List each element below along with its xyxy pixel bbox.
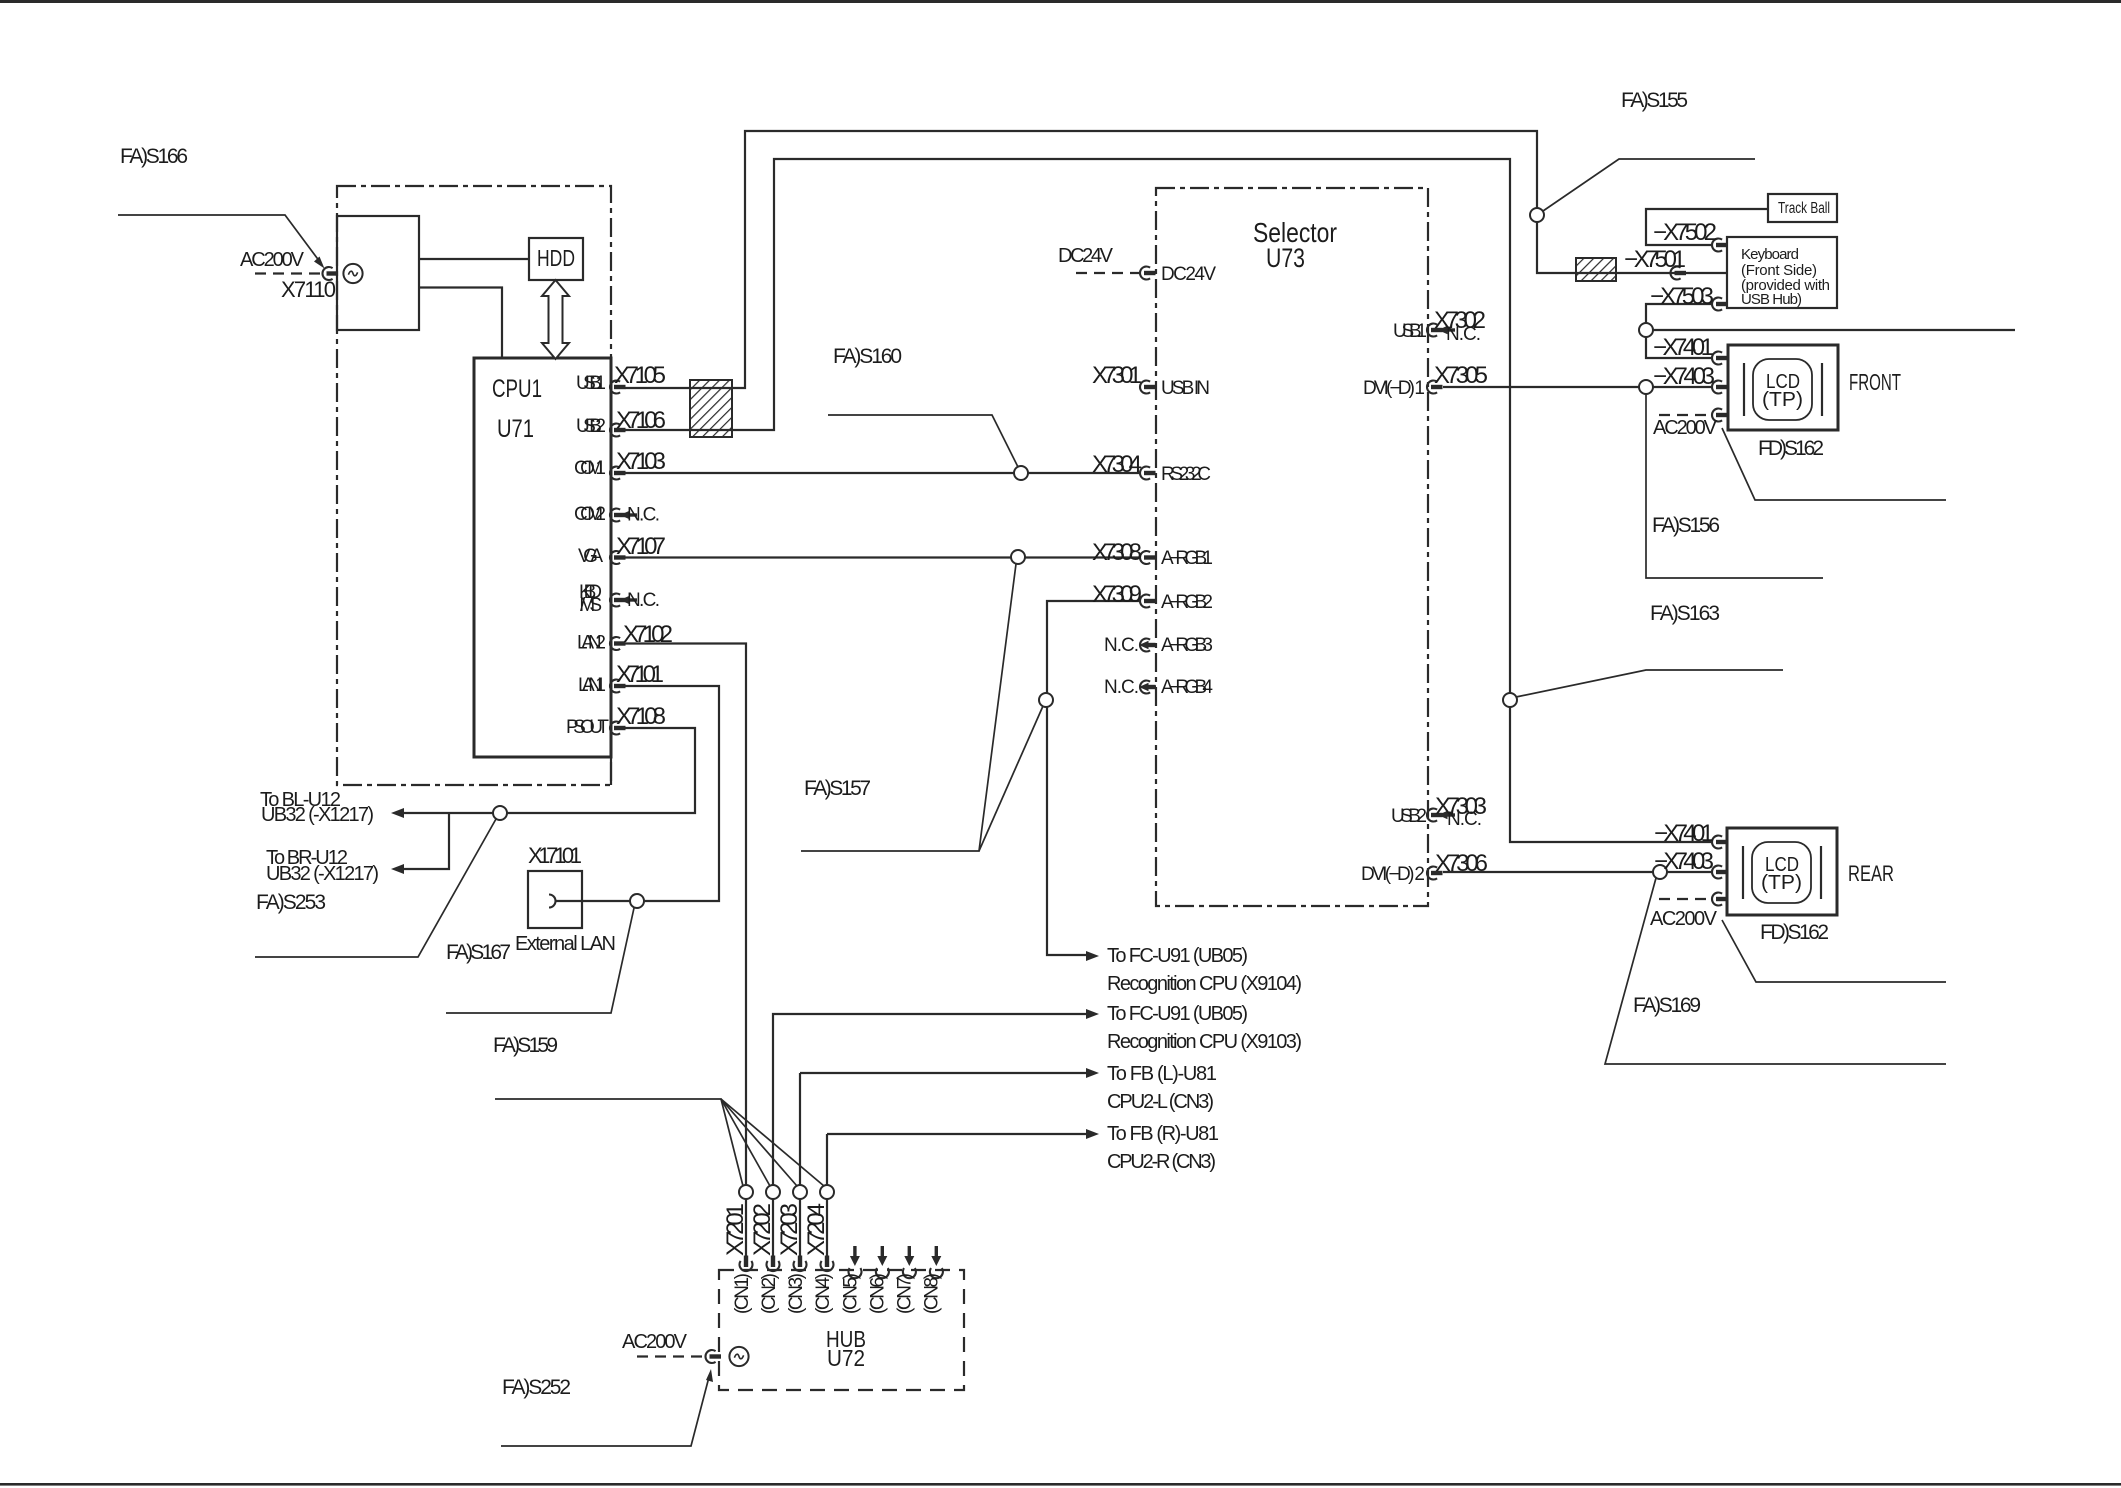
svg-text:−X7401: −X7401 (1653, 334, 1714, 361)
svg-text:A−RGB4: A−RGB4 (1161, 677, 1213, 698)
svg-text:FD)S162: FD)S162 (1758, 437, 1824, 460)
svg-text:X7203: X7203 (776, 1203, 803, 1256)
svg-text:To FC-U91 (UB05): To FC-U91 (UB05) (1107, 945, 1248, 967)
svg-text:X7308: X7308 (1092, 539, 1142, 566)
svg-text:UB32 (-X1217): UB32 (-X1217) (266, 863, 379, 885)
svg-text:DC24V: DC24V (1161, 264, 1216, 285)
svg-text:External LAN: External LAN (515, 933, 616, 955)
svg-text:RS232C: RS232C (1161, 464, 1211, 485)
svg-text:VGA: VGA (578, 546, 603, 567)
svg-text:AC200V: AC200V (1653, 417, 1718, 439)
svg-text:To FC-U91 (UB05): To FC-U91 (UB05) (1107, 1003, 1248, 1025)
svg-text:−X7403: −X7403 (1654, 848, 1714, 875)
svg-text:LAN1: LAN1 (578, 675, 606, 696)
svg-text:Recognition CPU (X9103): Recognition CPU (X9103) (1107, 1031, 1302, 1053)
svg-text:A−RGB2: A−RGB2 (1161, 592, 1213, 613)
svg-text:AC200V: AC200V (240, 249, 305, 271)
svg-text:−X7401: −X7401 (1654, 820, 1714, 847)
svg-text:X7301: X7301 (1092, 362, 1142, 389)
svg-text:−X7501: −X7501 (1624, 246, 1686, 273)
svg-text:(TP): (TP) (1762, 389, 1803, 411)
svg-text:(CN3): (CN3) (786, 1273, 807, 1314)
svg-text:PS OUT: PS OUT (566, 717, 609, 738)
svg-text:FA)S166: FA)S166 (120, 145, 188, 168)
svg-text:N.C.: N.C. (1104, 677, 1139, 698)
svg-text:X17101: X17101 (528, 843, 582, 868)
svg-text:/MS: /MS (579, 595, 602, 616)
svg-text:X7201: X7201 (722, 1203, 749, 1256)
svg-text:FD)S162: FD)S162 (1760, 921, 1829, 944)
svg-text:U71: U71 (497, 415, 534, 443)
svg-text:DVI(−D) 1: DVI(−D) 1 (1363, 378, 1425, 399)
svg-text:FA)S252: FA)S252 (502, 1376, 571, 1399)
svg-text:FA)S157: FA)S157 (804, 777, 871, 800)
svg-text:(CN7): (CN7) (895, 1273, 916, 1314)
svg-text:DVI(−D) 2: DVI(−D) 2 (1361, 864, 1425, 885)
svg-text:N.C.: N.C. (1104, 635, 1139, 656)
svg-text:Keyboard: Keyboard (1741, 246, 1799, 263)
svg-text:X7305: X7305 (1434, 362, 1488, 389)
svg-text:−X7502: −X7502 (1653, 219, 1717, 246)
svg-text:FA)S155: FA)S155 (1621, 89, 1688, 112)
svg-text:X7103: X7103 (616, 448, 666, 475)
svg-text:N.C.: N.C. (1446, 324, 1481, 345)
svg-text:COM1: COM1 (574, 458, 606, 479)
svg-text:N.C.: N.C. (627, 505, 660, 526)
svg-text:X7204: X7204 (803, 1203, 830, 1256)
svg-text:Track Ball: Track Ball (1778, 200, 1830, 217)
svg-text:DC24V: DC24V (1058, 245, 1114, 267)
svg-text:FA)S163: FA)S163 (1650, 602, 1720, 625)
svg-text:U73: U73 (1266, 243, 1305, 273)
svg-text:CPU2-R (CN3): CPU2-R (CN3) (1107, 1151, 1216, 1173)
svg-text:X7101: X7101 (616, 661, 664, 688)
svg-text:(CN1): (CN1) (732, 1273, 753, 1314)
svg-text:USB Hub): USB Hub) (1741, 291, 1802, 308)
svg-text:U72: U72 (827, 1345, 865, 1371)
svg-text:(TP): (TP) (1761, 872, 1802, 894)
svg-text:(CN6): (CN6) (868, 1273, 889, 1314)
svg-text:COM2: COM2 (574, 504, 606, 525)
svg-text:USB1: USB1 (1393, 321, 1427, 342)
svg-text:X7102: X7102 (623, 621, 673, 648)
svg-text:FRONT: FRONT (1849, 369, 1901, 395)
svg-text:FA)S156: FA)S156 (1652, 514, 1720, 537)
svg-text:To FB (R)-U81: To FB (R)-U81 (1107, 1123, 1219, 1145)
svg-text:X7306: X7306 (1435, 850, 1488, 877)
svg-text:USB2: USB2 (1391, 806, 1427, 827)
svg-text:X7202: X7202 (749, 1203, 776, 1256)
svg-text:FA)S253: FA)S253 (256, 891, 326, 914)
svg-text:CPU2-L (CN3): CPU2-L (CN3) (1107, 1091, 1214, 1113)
svg-text:USB IN: USB IN (1161, 378, 1210, 399)
svg-text:UB32 (-X1217): UB32 (-X1217) (261, 804, 374, 826)
svg-text:Recognition CPU (X9104): Recognition CPU (X9104) (1107, 973, 1302, 995)
svg-text:X7107: X7107 (616, 533, 666, 560)
svg-text:(CN8): (CN8) (922, 1273, 943, 1314)
svg-text:FA)S159: FA)S159 (493, 1034, 558, 1057)
svg-text:N.C.: N.C. (1447, 809, 1482, 830)
svg-text:LAN2: LAN2 (577, 633, 606, 654)
svg-text:X7106: X7106 (616, 407, 666, 434)
svg-text:(CN4): (CN4) (813, 1273, 834, 1314)
svg-text:N.C.: N.C. (627, 590, 660, 611)
svg-text:FA)S167: FA)S167 (446, 941, 511, 964)
svg-text:X7108: X7108 (616, 703, 666, 730)
svg-text:AC200V: AC200V (622, 1331, 688, 1353)
svg-text:FA)S160: FA)S160 (833, 345, 902, 368)
svg-text:(CN5): (CN5) (841, 1273, 862, 1314)
svg-text:USB1: USB1 (576, 373, 606, 394)
svg-text:X7309: X7309 (1092, 581, 1142, 608)
svg-text:A−RGB1: A−RGB1 (1161, 548, 1213, 569)
svg-text:(CN2): (CN2) (759, 1273, 780, 1314)
svg-text:HDD: HDD (537, 245, 575, 271)
svg-text:FA)S169: FA)S169 (1633, 994, 1701, 1017)
svg-text:CPU1: CPU1 (492, 375, 542, 403)
svg-text:X7105: X7105 (614, 362, 666, 389)
svg-text:X7110: X7110 (281, 277, 336, 302)
svg-text:−X7403: −X7403 (1653, 363, 1715, 390)
svg-text:REAR: REAR (1848, 861, 1894, 886)
svg-text:USB2: USB2 (576, 416, 606, 437)
svg-text:−X7503: −X7503 (1650, 283, 1714, 310)
svg-text:A−RGB3: A−RGB3 (1161, 635, 1213, 656)
svg-text:To FB (L)-U81: To FB (L)-U81 (1107, 1063, 1217, 1085)
svg-text:X7304: X7304 (1092, 451, 1142, 478)
svg-text:AC200V: AC200V (1650, 908, 1718, 930)
